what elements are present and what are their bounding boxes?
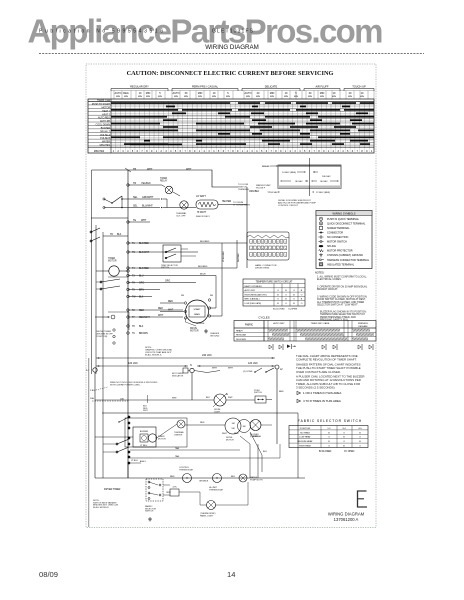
svg-text:2: 2 — [333, 150, 335, 153]
svg-text:MIN: MIN — [320, 92, 325, 95]
svg-text:7: 7 — [271, 150, 273, 153]
svg-text:10: 10 — [361, 92, 364, 95]
svg-text:MIN: MIN — [146, 92, 151, 95]
svg-text:B: B — [301, 290, 303, 292]
svg-text:1M: 1M — [232, 423, 235, 425]
svg-text:OVER CONTACTS ARE CLOSED.: OVER CONTACTS ARE CLOSED. — [296, 370, 341, 374]
svg-text:QUICK DISCONNECT TERMINAL: QUICK DISCONNECT TERMINAL — [327, 222, 366, 225]
svg-text:MIN: MIN — [348, 96, 352, 98]
svg-text:SWITCH: SWITCH — [145, 511, 154, 513]
svg-text:5M: 5M — [181, 295, 184, 297]
svg-text:5: 5 — [159, 92, 161, 95]
svg-text:B=CLOSED: B=CLOSED — [273, 309, 285, 311]
svg-text:(2) CONN: (2) CONN — [243, 371, 253, 373]
svg-text:TW: TW — [132, 297, 136, 299]
svg-text:3: 3 — [251, 150, 253, 153]
svg-text:B: B — [293, 294, 295, 296]
svg-text:TH: TH — [132, 283, 135, 285]
svg-text:SPLICE: SPLICE — [327, 245, 336, 248]
svg-text:MOTOR SWITCH: MOTOR SWITCH — [327, 241, 347, 244]
svg-text:O: O — [301, 303, 303, 305]
svg-text:B: B — [359, 432, 361, 434]
svg-text:10: 10 — [139, 92, 142, 95]
svg-text:7: 7 — [141, 150, 143, 153]
svg-text:O: O — [343, 441, 345, 443]
svg-text:6: 6 — [180, 150, 182, 153]
svg-text:IN ALL MODELS.: IN ALL MODELS. — [145, 353, 162, 356]
svg-text:WHT: WHT — [147, 168, 153, 171]
svg-text:ORG: ORG — [165, 281, 170, 283]
svg-text:BLK/RED: BLK/RED — [200, 241, 210, 243]
svg-text:WHT: WHT — [158, 315, 164, 317]
svg-text:BLK/WHT: BLK/WHT — [139, 252, 150, 254]
svg-text:L2: L2 — [280, 369, 283, 371]
svg-text:BLK/RED: BLK/RED — [139, 243, 149, 245]
svg-text:WHT: WHT — [168, 310, 174, 312]
svg-text:1: 1 — [199, 150, 201, 153]
svg-text:7: 7 — [357, 150, 359, 153]
svg-text:T5: T5 — [132, 290, 135, 292]
svg-text:PUMP MOTR: PUMP MOTR — [250, 479, 263, 481]
svg-text:B: B — [343, 446, 345, 448]
svg-text:MIN: MIN — [360, 96, 364, 98]
svg-text:TS: TS — [132, 252, 135, 254]
svg-text:B: B — [277, 303, 279, 305]
svg-text:PERM PRS / CASUAL: PERM PRS / CASUAL — [192, 85, 219, 89]
svg-text:ORG: ORG — [139, 283, 144, 285]
svg-text:TPS3 SEC: TPS3 SEC — [267, 192, 278, 194]
svg-text:1: 1 — [156, 150, 158, 153]
svg-text:TB: TB — [133, 168, 136, 171]
svg-text:CUT-OFF: CUT-OFF — [176, 215, 186, 217]
svg-text:T2: T2 — [132, 310, 135, 312]
svg-text:WHT: WHT — [212, 368, 218, 370]
svg-text:6: 6 — [137, 150, 139, 153]
svg-text:9: 9 — [323, 150, 325, 153]
svg-text:2: 2 — [290, 150, 292, 153]
svg-text:8: 8 — [361, 150, 363, 153]
svg-text:WHT: WHT — [141, 219, 147, 222]
svg-text:MOTOR: MOTOR — [226, 439, 234, 441]
svg-text:MAIN: MAIN — [194, 313, 200, 316]
svg-text:PULSE A: PULSE A — [100, 134, 110, 137]
svg-text:BLK/RED: BLK/RED — [198, 266, 208, 268]
svg-text:REGULAR DRY: REGULAR DRY — [130, 85, 149, 89]
svg-text:8: 8 — [146, 150, 148, 153]
svg-text:10A: 10A — [90, 397, 94, 400]
svg-text:WHT: WHT — [186, 168, 192, 171]
svg-text:MED (CASUAL): MED (CASUAL) — [245, 298, 260, 301]
svg-text:20: 20 — [349, 92, 352, 95]
svg-text:MIN: MIN — [308, 96, 312, 98]
svg-text:T7: T7 — [132, 317, 135, 319]
svg-text:BLU: BLU — [139, 276, 144, 278]
svg-text:AUTO: AUTO — [173, 92, 180, 95]
svg-text:BLU/WHT: BLU/WHT — [142, 205, 153, 208]
svg-text:BLK/RED: BLK/RED — [139, 268, 149, 270]
svg-text:7: 7 — [314, 150, 316, 153]
svg-text:B: B — [328, 432, 330, 434]
svg-text:5: 5 — [132, 150, 134, 153]
svg-text:O: O — [285, 294, 287, 296]
svg-text:ORANGE: ORANGE — [252, 435, 262, 438]
svg-text:14 SEC (REF): 14 SEC (REF) — [282, 172, 296, 174]
svg-text:TIMER CAM: TIMER CAM — [97, 100, 110, 103]
svg-text:5: 5 — [175, 150, 177, 153]
svg-text:T3: T3 — [132, 276, 135, 278]
svg-text:GLET1031FS: GLET1031FS — [212, 29, 254, 35]
svg-text:TEMPERATURE SWITCH CIRCUIT: TEMPERATURE SWITCH CIRCUIT — [256, 281, 293, 284]
svg-text:HEAT 1: HEAT 1 — [102, 110, 111, 113]
svg-text:3: 3 — [337, 150, 339, 153]
svg-text:O: O — [343, 432, 345, 434]
svg-text:ORG/BLK: ORG/BLK — [249, 191, 260, 193]
svg-text:HEAT / DRYNESS: HEAT / DRYNESS — [245, 285, 263, 288]
svg-text:WITH 4-WIRE POWER CORD.: WITH 4-WIRE POWER CORD. — [110, 384, 141, 386]
svg-text:BROWN: BROWN — [139, 333, 148, 335]
svg-text:MOTOR: MOTOR — [158, 438, 166, 440]
svg-text:120 VAC: 120 VAC — [248, 362, 258, 365]
svg-text:AUTO: AUTO — [115, 92, 122, 95]
svg-text:PANEL LIGHT: PANEL LIGHT — [200, 514, 214, 517]
svg-text:BLK: BLK — [206, 397, 210, 399]
svg-text:08/09: 08/09 — [39, 570, 58, 579]
svg-text:6: 6 — [223, 150, 225, 153]
svg-text:IN ALL MODELS.: IN ALL MODELS. — [93, 506, 110, 509]
svg-text:1: 1 — [242, 150, 244, 153]
svg-text:O= OPEN: O= OPEN — [344, 451, 355, 453]
svg-text:HIGH HEAT: HIGH HEAT — [299, 445, 311, 448]
svg-text:FABRIC SELECTOR SWITCH: FABRIC SELECTOR SWITCH — [298, 419, 362, 423]
svg-text:O: O — [359, 437, 361, 439]
svg-text:BRN: BRN — [139, 290, 144, 292]
svg-text:FABRIC: FABRIC — [245, 324, 254, 327]
svg-text:O: O — [328, 437, 330, 439]
svg-text:B: B — [285, 299, 287, 301]
svg-text:BLK: BLK — [139, 297, 144, 299]
svg-text:6: 6 — [352, 150, 354, 153]
svg-text:1: 1 — [328, 150, 330, 153]
svg-text:4 TO 8 TIMES IN THIS AREA: 4 TO 8 TIMES IN THIS AREA — [303, 399, 341, 403]
svg-text:T9: T9 — [132, 333, 135, 335]
svg-text:B: B — [293, 303, 295, 305]
svg-text:1: 1 — [285, 150, 287, 153]
svg-text:MIN: MIN — [294, 96, 298, 98]
svg-text:B: B — [359, 441, 361, 443]
svg-text:BLK: BLK — [139, 326, 144, 328]
svg-text:REGULAR: REGULAR — [236, 334, 247, 337]
svg-text:MIN: MIN — [270, 96, 274, 98]
svg-text:RED: RED — [170, 476, 175, 478]
svg-text:9: 9 — [366, 150, 368, 153]
svg-text:BLK: BLK — [263, 451, 267, 453]
svg-text:3: 3 — [208, 150, 210, 153]
svg-text:BREAK: BREAK — [262, 165, 270, 168]
svg-text:(DRUM VIEW): (DRUM VIEW) — [255, 267, 269, 269]
svg-text:MIN: MIN — [270, 92, 275, 95]
svg-text:HEAVY: HEAVY — [236, 329, 244, 332]
svg-text:MIN: MIN — [332, 96, 336, 98]
svg-text:1: 1 — [113, 150, 115, 153]
svg-text:MIN: MIN — [174, 96, 178, 98]
svg-text:BLK: BLK — [117, 234, 122, 236]
svg-text:SWITCH: SWITCH — [161, 267, 169, 269]
svg-text:SEL: SEL — [133, 196, 138, 199]
svg-text:WHT: WHT — [222, 433, 227, 435]
svg-text:MEDIUM HEAT: MEDIUM HEAT — [297, 440, 313, 443]
svg-text:MOTOR: MOTOR — [108, 261, 117, 263]
svg-text:20: 20 — [257, 92, 260, 95]
svg-text:9: 9 — [194, 150, 196, 153]
svg-text:96 SEC: 96 SEC — [320, 181, 328, 183]
svg-text:START: START — [194, 308, 202, 311]
svg-text:LT BLU: LT BLU — [131, 460, 138, 462]
svg-text:14: 14 — [227, 570, 235, 579]
svg-text:CHASSIS (CABINET) GROUND: CHASSIS (CABINET) GROUND — [327, 254, 363, 257]
svg-text:3: 3 — [165, 150, 167, 153]
svg-text:O: O — [277, 290, 279, 292]
svg-text:4: 4 — [342, 150, 344, 153]
svg-text:DELICATE: DELICATE — [236, 338, 247, 341]
svg-text:TOUCH UP: TOUCH UP — [352, 85, 366, 89]
svg-text:5: 5 — [218, 150, 220, 153]
svg-text:NO HEAT: NO HEAT — [300, 431, 310, 434]
svg-text:RED/WHT: RED/WHT — [139, 317, 150, 319]
svg-text:MIN: MIN — [320, 96, 324, 98]
svg-text:9: 9 — [237, 150, 239, 153]
svg-text:MIN: MIN — [184, 96, 188, 98]
svg-text:PULSE P: PULSE P — [256, 187, 266, 189]
svg-text:3M: 3M — [243, 426, 246, 428]
svg-text:HEAT 2: HEAT 2 — [102, 113, 111, 116]
svg-text:POSITION: POSITION — [300, 428, 311, 430]
svg-text:3-4: 3-4 — [342, 428, 346, 430]
svg-text:RED: RED — [158, 308, 163, 310]
svg-text:5: 5 — [304, 150, 306, 153]
svg-text:GROUND: GROUND — [210, 335, 220, 337]
svg-text:MIN: MIN — [256, 96, 260, 98]
svg-text:8: 8 — [232, 150, 234, 153]
svg-text:LO WATT: LO WATT — [196, 195, 207, 198]
svg-text:AUTO DRY: AUTO DRY — [245, 289, 256, 292]
svg-text:HI WATT: HI WATT — [197, 211, 207, 214]
svg-text:MOTOR PROTECTOR: MOTOR PROTECTOR — [327, 250, 353, 253]
svg-text:10: 10 — [213, 92, 216, 95]
svg-text:2: 2 — [161, 150, 163, 153]
svg-text:3M: 3M — [210, 295, 213, 297]
svg-text:6: 6 — [266, 150, 268, 153]
svg-text:ORG/BLK: ORG/BLK — [199, 481, 209, 483]
svg-text:1: 1 — [371, 150, 373, 153]
svg-text:DRYER TIMER: DRYER TIMER — [104, 488, 121, 491]
svg-text:AUTO PP: AUTO PP — [100, 120, 111, 123]
svg-text:YEL/BLK: YEL/BLK — [141, 182, 151, 185]
svg-text:SWITCH: SWITCH — [254, 392, 262, 394]
svg-text:RELAY: RELAY — [160, 180, 168, 183]
svg-text:8: 8 — [275, 150, 277, 153]
svg-text:T4: T4 — [132, 268, 135, 270]
svg-text:RED: RED — [168, 301, 173, 303]
svg-text:4: 4 — [127, 150, 129, 153]
svg-text:8: 8 — [189, 150, 191, 153]
svg-text:WATER: WATER — [102, 141, 110, 144]
svg-text:2 BLK: 2 BLK — [90, 390, 96, 392]
svg-text:WIRING DIAGRAM: WIRING DIAGRAM — [205, 44, 259, 51]
svg-text:NOTES:: NOTES: — [315, 272, 325, 275]
svg-text:BUZZER: BUZZER — [140, 431, 149, 433]
svg-text:POSITION): POSITION) — [96, 336, 107, 338]
svg-text:LOW HEAT: LOW HEAT — [299, 436, 311, 439]
svg-text:B: B — [285, 290, 287, 292]
svg-text:4-5: 4-5 — [358, 428, 362, 430]
svg-text:O=OPEN: O=OPEN — [288, 309, 298, 311]
svg-text:TAN: TAN — [175, 447, 180, 450]
svg-text:AUTO REG: AUTO REG — [98, 117, 110, 120]
svg-text:TIMED DRY CARE: TIMED DRY CARE — [311, 322, 330, 325]
svg-text:3: 3 — [294, 150, 296, 153]
svg-text:CONNECTOR: CONNECTOR — [327, 231, 343, 234]
svg-text:CAUTION: DISCONNECT ELECTRIC: CAUTION: DISCONNECT ELECTRIC CURRENT BEF… — [127, 70, 334, 77]
svg-text:MIN: MIN — [212, 96, 216, 98]
svg-text:THERMOSTAT: THERMOSTAT — [209, 488, 224, 491]
svg-text:WHT: WHT — [143, 410, 148, 412]
svg-text:INDICATOR: INDICATOR — [172, 374, 184, 377]
svg-text:WIRING DIAGRAM: WIRING DIAGRAM — [328, 512, 365, 517]
svg-text:GRN/WHT: GRN/WHT — [142, 196, 154, 199]
svg-text:MIN: MIN — [226, 96, 230, 98]
svg-text:TERMINAL: TERMINAL — [238, 188, 250, 191]
svg-text:9: 9 — [280, 150, 282, 153]
svg-text:MIN: MIN — [284, 96, 288, 98]
svg-text:120 VAC: 120 VAC — [128, 362, 138, 365]
svg-text:7: 7 — [184, 150, 186, 153]
svg-text:BLUE: BLUE — [200, 274, 206, 276]
svg-text:4: 4 — [299, 150, 301, 153]
svg-text:O: O — [301, 294, 303, 296]
svg-text:LT BLU/BLK: LT BLU/BLK — [223, 250, 225, 262]
svg-text:RED: RED — [279, 391, 284, 393]
svg-text:CYCLES: CYCLES — [258, 316, 269, 320]
svg-text:WIRING SYMBOLS: WIRING SYMBOLS — [333, 212, 356, 216]
svg-text:O: O — [277, 299, 279, 301]
svg-text:2: 2 — [204, 150, 206, 153]
svg-text:3: 3 — [122, 150, 124, 153]
svg-text:MIN: MIN — [198, 92, 203, 95]
svg-text:5M: 5M — [232, 428, 235, 430]
svg-text:WHT: WHT — [228, 397, 233, 399]
svg-text:LOW (DELICATE): LOW (DELICATE) — [245, 302, 262, 305]
svg-text:GRN/YEL: GRN/YEL — [196, 323, 206, 325]
svg-text:BLK: BLK — [231, 476, 236, 478]
svg-text:O: O — [293, 290, 295, 292]
svg-text:MOTOR: MOTOR — [190, 331, 199, 333]
svg-text:5: 5 — [295, 92, 297, 95]
svg-text:SELECTOR SWITCH AT "LOW HEAT".: SELECTOR SWITCH AT "LOW HEAT". — [317, 304, 359, 307]
svg-text:240 VAC: 240 VAC — [202, 354, 212, 357]
svg-text:RED: RED — [139, 310, 144, 312]
svg-text:WHT: WHT — [228, 368, 234, 370]
svg-text:4: 4 — [213, 150, 215, 153]
svg-text:2: 2 — [118, 150, 120, 153]
svg-text:SCREW TERMINAL: SCREW TERMINAL — [327, 227, 350, 230]
svg-text:6: 6 — [309, 150, 311, 153]
svg-text:HIGH (REGULAR DRY): HIGH (REGULAR DRY) — [245, 293, 267, 296]
svg-text:MIN: MIN — [138, 96, 142, 98]
svg-text:WRINKLE: WRINKLE — [358, 323, 369, 325]
svg-text:AIR FLUFF: AIR FLUFF — [315, 85, 329, 89]
svg-text:10: 10 — [333, 92, 336, 95]
svg-text:A/44.5: A/44.5 — [140, 460, 147, 463]
svg-text:MIN: MIN — [116, 96, 120, 98]
svg-text:INSULATED TERMINAL: INSULATED TERMINAL — [327, 263, 355, 266]
svg-text:N: N — [190, 364, 192, 367]
svg-text:T8: T8 — [132, 326, 135, 328]
svg-text:B: B — [277, 294, 279, 296]
svg-text:2: 2 — [247, 150, 249, 153]
svg-text:4.7K: 4.7K — [172, 487, 177, 489]
svg-text:LIMITER: LIMITER — [174, 434, 183, 436]
svg-text:PUSH TO START: PUSH TO START — [92, 103, 111, 106]
svg-text:5: 5 — [227, 92, 229, 95]
svg-text:TAN: TAN — [175, 455, 180, 458]
svg-text:MIN: MIN — [246, 96, 250, 98]
svg-text:PUSH IN QUICK TERMINAL: PUSH IN QUICK TERMINAL — [327, 218, 360, 221]
svg-text:30: 30 — [185, 92, 188, 95]
svg-text:8: 8 — [318, 150, 320, 153]
svg-text:5: 5 — [347, 150, 349, 153]
svg-text:RELEASE: RELEASE — [358, 325, 368, 328]
svg-text:TE: TE — [133, 219, 136, 222]
svg-text:1 OR 2 TIMES IN THIS AREA: 1 OR 2 TIMES IN THIS AREA — [303, 391, 341, 395]
svg-text:MIN: MIN — [146, 96, 150, 98]
svg-text:WHT: WHT — [172, 398, 177, 400]
svg-text:B=CLOSED: B=CLOSED — [319, 451, 332, 453]
svg-text:MINUTES: MINUTES — [94, 151, 105, 153]
svg-text:1-2: 1-2 — [327, 428, 331, 430]
svg-text:WHT/BLK: WHT/BLK — [238, 252, 240, 262]
svg-text:240 SEC: 240 SEC — [322, 176, 331, 178]
svg-text:REG: REG — [123, 92, 128, 95]
svg-text:3 SECONDS (2.5 SECONDS).: 3 SECONDS (2.5 SECONDS). — [296, 386, 336, 390]
svg-text:9: 9 — [151, 150, 153, 153]
svg-text:NO CONNECTION: NO CONNECTION — [327, 236, 348, 239]
svg-text:12 SEC (REF): 12 SEC (REF) — [316, 192, 330, 194]
svg-text:MIN: MIN — [158, 96, 162, 98]
svg-text:O: O — [328, 446, 330, 448]
svg-text:5600 W 240 V: 5600 W 240 V — [196, 216, 210, 218]
svg-text:AUTO DRY: AUTO DRY — [273, 322, 285, 325]
svg-text:MIN: MIN — [198, 96, 202, 98]
svg-text:SEL: SEL — [133, 205, 138, 208]
svg-text:LT BLU: LT BLU — [140, 445, 148, 447]
svg-text:5: 5 — [261, 150, 263, 153]
svg-text:7: 7 — [227, 150, 229, 153]
svg-text:4: 4 — [170, 150, 172, 153]
svg-text:AUTO: AUTO — [245, 92, 252, 95]
svg-text:30: 30 — [309, 92, 312, 95]
svg-text:O: O — [285, 303, 287, 305]
svg-text:O: O — [293, 299, 295, 301]
svg-text:MIN: MIN — [124, 96, 128, 98]
svg-text:RED: RED — [234, 433, 239, 435]
svg-text:THERMOSTAT: THERMOSTAT — [179, 468, 194, 471]
svg-text:B: B — [343, 437, 345, 439]
svg-text:CONTROL CIRCUIT: CONTROL CIRCUIT — [278, 205, 299, 207]
svg-text:TD: TD — [110, 234, 113, 236]
svg-text:T1: T1 — [132, 243, 135, 245]
svg-text:DELICATE: DELICATE — [265, 85, 278, 89]
svg-text:B: B — [328, 441, 330, 443]
